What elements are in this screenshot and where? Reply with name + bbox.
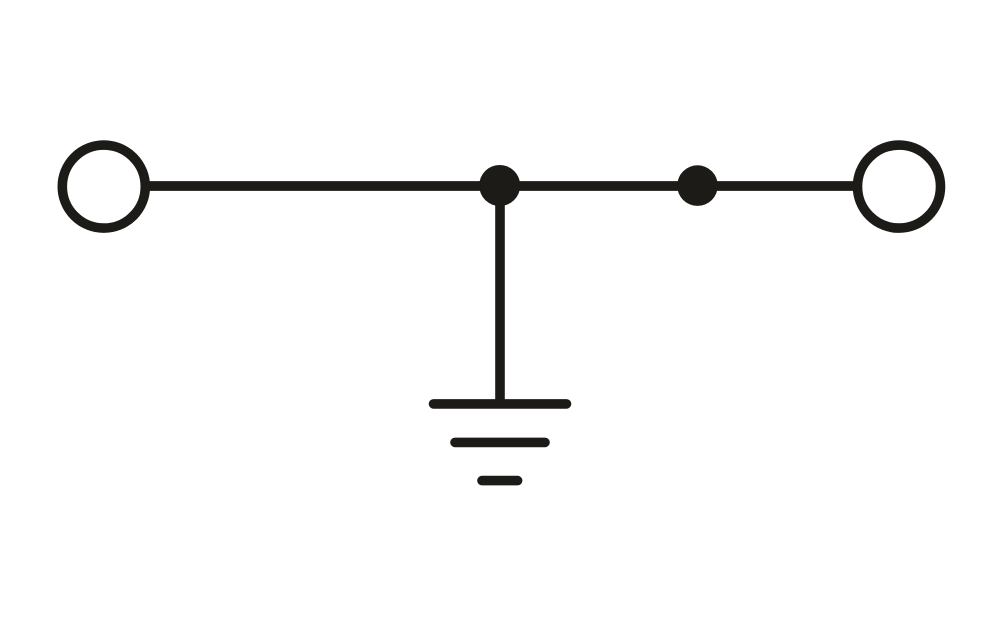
ground: earth symbol, top bar: [434, 399, 567, 409]
ground: earth symbol, bottom bar: [482, 476, 518, 486]
node B: junction dot on right segment: [677, 165, 718, 206]
terminal circle right (connection point 2): [858, 145, 941, 228]
node A: junction dot at center of bus: [479, 165, 520, 206]
wire: vertical drop from node A to ground: [495, 186, 505, 403]
wire: horizontal bus from left terminal to right terminal: [144, 181, 858, 191]
ground: earth symbol, middle bar: [455, 438, 545, 448]
terminal circle left (connection point 1): [62, 145, 145, 228]
